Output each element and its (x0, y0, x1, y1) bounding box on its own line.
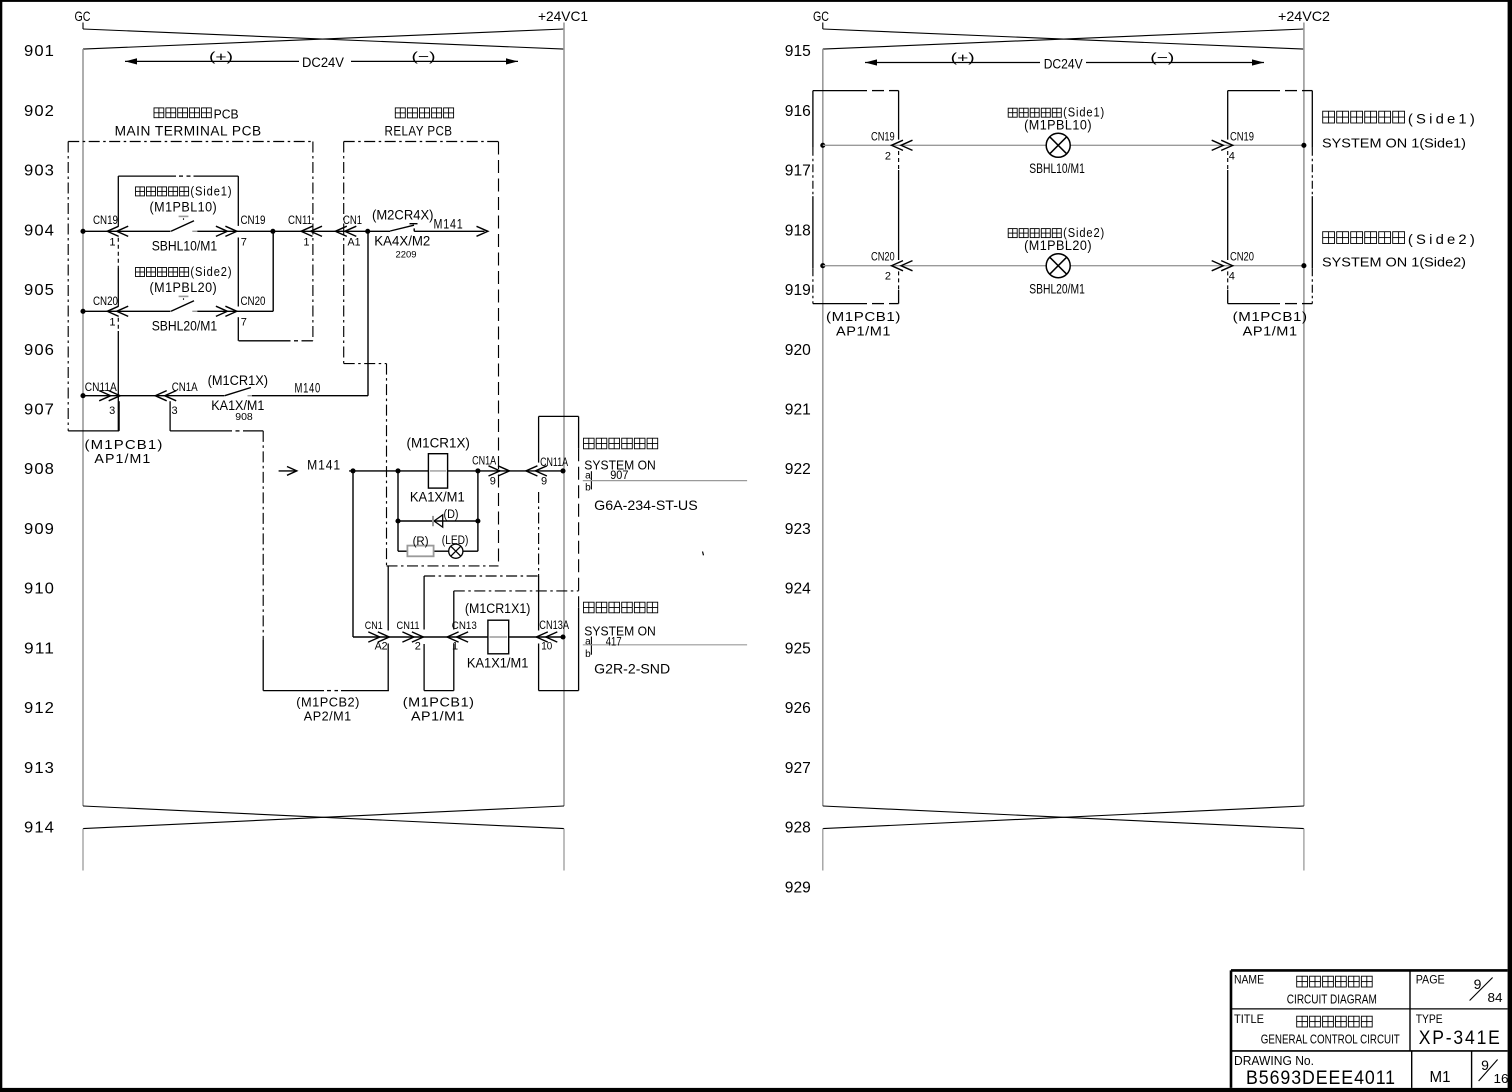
svg-text:AP1/M1: AP1/M1 (1243, 324, 1298, 339)
wire diode row (398, 520, 478, 522)
svg-text:TITLE: TITLE (1234, 1014, 1264, 1026)
indicator lamp SBHL20/M1 (1046, 254, 1070, 278)
svg-text:1: 1 (109, 236, 115, 248)
svg-text:905: 905 (24, 282, 55, 299)
svg-text:84: 84 (1488, 991, 1503, 1005)
connector CN19 pin1 chevron (107, 226, 119, 236)
svg-text:CN20: CN20 (1230, 252, 1254, 264)
connector CN1A pin9 chevron (498, 466, 510, 476)
svg-text:M140: M140 (295, 380, 322, 395)
svg-text:a: a (585, 470, 591, 481)
label 制御電源入り(Side1) (1323, 111, 1335, 123)
svg-text:912: 912 (24, 700, 55, 717)
wire row916 lamp circuit (823, 144, 1046, 146)
enclosure G2R bottom (539, 690, 579, 692)
svg-text:A1: A1 (348, 236, 361, 248)
svg-text:DC24V: DC24V (302, 55, 344, 70)
node junction bus +24VC1 row908 (560, 468, 565, 473)
node bus junction row904 (80, 229, 85, 234)
svg-text:1: 1 (109, 317, 115, 329)
label 制御電源入り row908 (584, 438, 595, 449)
svg-text:(Side1): (Side1) (190, 184, 232, 198)
svg-text:(M1CR1X1): (M1CR1X1) (465, 601, 531, 616)
enclosure G2R right edge (578, 608, 580, 691)
svg-text:+24VC2: +24VC2 (1278, 8, 1330, 24)
wire M140 riser to row904 (367, 231, 369, 395)
switch SBHL10/M1 pushbutton blade (171, 221, 194, 232)
relay contact KA4X/M2 (M2CR4X) (390, 225, 414, 231)
LED indicator (449, 544, 463, 558)
svg-text:M1: M1 (1430, 1069, 1451, 1086)
svg-text:918: 918 (785, 222, 811, 239)
diode D (432, 516, 434, 526)
svg-text:SBHL20/M1: SBHL20/M1 (1029, 282, 1085, 297)
svg-text:CN11: CN11 (397, 620, 420, 632)
board outline M1PCB1 right box right half (1228, 90, 1280, 92)
connector CN20 pin7 chevron (225, 306, 237, 316)
svg-text:G6A-234-ST-US: G6A-234-ST-US (594, 497, 698, 513)
svg-text:SBHL20/M1: SBHL20/M1 (152, 319, 218, 334)
svg-text:M141: M141 (307, 457, 341, 472)
svg-text:(M1PBL20): (M1PBL20) (1024, 238, 1092, 253)
svg-text:M141: M141 (434, 217, 464, 232)
svg-text:914: 914 (24, 820, 55, 837)
svg-text:KA1X1/M1: KA1X1/M1 (467, 655, 529, 670)
svg-text:CN1A: CN1A (472, 454, 496, 468)
connector CN19 pin2 chevron right half (892, 140, 904, 150)
net line a to 417 (583, 644, 747, 646)
svg-text:903: 903 (24, 163, 55, 180)
svg-text:CN11A: CN11A (540, 455, 568, 469)
svg-text:CN20: CN20 (241, 294, 266, 308)
wire bottom stubs left half (82, 829, 84, 871)
svg-text:906: 906 (24, 342, 55, 359)
svg-text:911: 911 (24, 640, 55, 657)
svg-text:929: 929 (785, 879, 811, 896)
svg-text:902: 902 (24, 103, 55, 120)
svg-text:AP2/M1: AP2/M1 (304, 709, 352, 724)
connector CN1A pin3 chevron (155, 391, 167, 401)
wire bottom stubs right half (822, 829, 824, 871)
svg-text:SBHL10/M1: SBHL10/M1 (1029, 161, 1085, 176)
bus GC vertical (left) (82, 49, 84, 806)
svg-text:CN19: CN19 (871, 131, 895, 143)
svg-text:924: 924 (785, 581, 811, 598)
wire row904 switch to CN1 (197, 230, 390, 232)
svg-text:915: 915 (785, 43, 811, 60)
dimension arrow DC24V right half (865, 62, 1040, 64)
switch SBHL20/M1 pushbutton blade (171, 301, 194, 312)
wire resistor-LED row (398, 550, 407, 552)
svg-text:NAME: NAME (1234, 975, 1264, 987)
svg-text:16: 16 (1494, 1072, 1509, 1086)
wire bus crossover bottom-right (823, 806, 1304, 829)
svg-text:908: 908 (24, 461, 55, 478)
svg-text:B5693DEEE4011: B5693DEEE4011 (1246, 1068, 1396, 1089)
svg-text:919: 919 (785, 282, 811, 299)
svg-text:(M1PBL20): (M1PBL20) (150, 280, 218, 295)
svg-text:TYPE: TYPE (1416, 1014, 1443, 1026)
connector CN20 pin2 chevron right half (892, 261, 904, 271)
wire bus crossover top-right (823, 29, 1304, 49)
svg-text:909: 909 (24, 521, 55, 538)
wire drop from row908 to row911 (352, 471, 354, 637)
node junction bus +24VC2 row918 (1301, 263, 1306, 268)
wire M141 entry arrow row908 (279, 470, 296, 472)
svg-text:(M1CR1X): (M1CR1X) (407, 435, 470, 450)
stray tick mark (703, 552, 704, 556)
svg-text:907: 907 (24, 402, 55, 419)
enclosure G2R relay outline top chain (454, 590, 579, 592)
svg-text:2: 2 (885, 150, 891, 162)
node junction bus GC row918 (820, 263, 825, 268)
svg-text:917: 917 (785, 163, 811, 180)
svg-text:3: 3 (171, 405, 177, 417)
svg-text:4: 4 (1229, 150, 1235, 162)
svg-text:CN20: CN20 (93, 294, 118, 308)
svg-text:SYSTEM ON 1(Side1): SYSTEM ON 1(Side1) (1322, 136, 1466, 151)
board boundary stubs under row907 connectors (118, 401, 120, 431)
bus +24VC2 vertical (1303, 23, 1305, 807)
svg-text:PCB: PCB (214, 106, 239, 121)
svg-text:SBHL10/M1: SBHL10/M1 (152, 239, 218, 254)
connector CN19 pin7 chevron (225, 226, 237, 236)
svg-text:CN19: CN19 (93, 213, 118, 227)
node junction row908 drop to row911 (350, 468, 355, 473)
wire jog CN20/7 up to row904 junction (272, 231, 274, 311)
svg-text:907: 907 (610, 468, 628, 482)
svg-text:G2R-2-SND: G2R-2-SND (594, 660, 670, 676)
wire row911 (353, 636, 563, 638)
svg-text:CN19: CN19 (241, 213, 266, 227)
connector CN11A pin3 chevron (109, 391, 121, 401)
svg-text:CN13A: CN13A (539, 618, 569, 632)
board outline M1PCB1 left box right half (813, 90, 867, 92)
label 操作パネル(Side1) (136, 187, 145, 196)
wire row907 (83, 395, 224, 397)
wire GC stub top right (822, 23, 824, 30)
snubber branch verticals (397, 471, 399, 551)
label 操作パネル(Side2) right half (1008, 229, 1017, 238)
label 操作パネル(Side1) right half (1008, 108, 1017, 117)
connector CN20 pin4 chevron right half (1221, 261, 1233, 271)
wire row918 lamp circuit (823, 265, 1046, 267)
svg-text:KA4X/M2: KA4X/M2 (374, 233, 430, 248)
svg-text:CN1: CN1 (343, 213, 362, 227)
svg-text:913: 913 (24, 760, 55, 777)
svg-text:(−): (−) (412, 49, 436, 64)
wire row904 bus to switch (83, 230, 171, 232)
board boundary M1PCB1 lower U (423, 576, 425, 630)
svg-text:DC24V: DC24V (1044, 56, 1083, 71)
connector CN11 pin2 chevron (412, 632, 424, 642)
board outline M1PCB2 left chain edge (262, 431, 264, 640)
svg-text:2: 2 (885, 271, 891, 283)
svg-text:9: 9 (541, 476, 547, 488)
enclosure G6A relay outline (539, 415, 579, 417)
svg-text:CN1: CN1 (365, 620, 383, 632)
svg-text:RELAY PCB: RELAY PCB (385, 124, 453, 139)
svg-text:KA1X/M1: KA1X/M1 (211, 398, 264, 413)
svg-text:3: 3 (109, 405, 115, 417)
board outline RELAY PCB chain box (344, 141, 499, 143)
connector CN20 pin1 chevron (107, 306, 119, 316)
svg-text:(Side2): (Side2) (1408, 231, 1478, 247)
svg-text:PAGE: PAGE (1416, 975, 1445, 987)
svg-text:928: 928 (785, 820, 811, 837)
svg-text:(−): (−) (1150, 50, 1174, 65)
label リレー基板 (RELAY PCB Japanese) (395, 108, 405, 118)
svg-text:CN19: CN19 (1230, 131, 1254, 143)
svg-text:AP1/M1: AP1/M1 (94, 451, 151, 466)
svg-text:417: 417 (606, 634, 622, 648)
wire bus crossover bottom-left (83, 806, 564, 829)
node junction diode row left (395, 518, 400, 523)
svg-text:920: 920 (785, 342, 811, 359)
wire row905 bus to switch (83, 310, 171, 312)
svg-text:2209: 2209 (396, 249, 417, 260)
svg-text:922: 922 (785, 461, 811, 478)
svg-text:(M1PCB1): (M1PCB1) (403, 694, 475, 709)
board outline M1PCB2 right edge (387, 566, 389, 631)
svg-text:+24VC1: +24VC1 (538, 8, 588, 24)
wire M140 (252, 395, 368, 397)
wire GC stub top (82, 23, 84, 30)
connector CN11 pin1 chevron (301, 226, 313, 236)
svg-text:916: 916 (785, 103, 811, 120)
connector CN19 pin4 chevron right half (1221, 140, 1233, 150)
node junction CN19/7 (270, 229, 275, 234)
svg-text:921: 921 (785, 402, 811, 419)
svg-text:(M1PBL10): (M1PBL10) (150, 200, 218, 215)
svg-text:CN11A: CN11A (85, 380, 117, 394)
bus +24VC1 vertical (right) (563, 23, 565, 807)
svg-text:1: 1 (303, 236, 309, 248)
svg-text:XP-341E: XP-341E (1419, 1028, 1502, 1049)
wire row905 switch to jog (197, 310, 273, 312)
title block frame (1231, 969, 1508, 972)
connector CN1 pinA2 chevron (378, 632, 390, 642)
svg-text:1: 1 (452, 641, 458, 653)
dimension arrow DC24V left half (125, 60, 299, 62)
node junction diode row right (475, 518, 480, 523)
svg-text:910: 910 (24, 581, 55, 598)
svg-text:b: b (585, 483, 591, 494)
board outline M1PCB2 bottom edge (263, 690, 324, 692)
svg-text:(M1CR1X): (M1CR1X) (208, 373, 268, 388)
relay contact KA1X/M1 (M1CR1X) (225, 388, 251, 396)
node junction bus GC row916 (820, 143, 825, 148)
net line a to 907 (583, 480, 747, 482)
enclosure operator panel box (118, 175, 176, 177)
node junction snubber left (395, 468, 400, 473)
svg-text:(M1PBL10): (M1PBL10) (1024, 118, 1092, 133)
label メイン中継PCB (MAIN TERMINAL PCB Japanese) (154, 108, 164, 118)
svg-text:KA1X/M1: KA1X/M1 (410, 490, 465, 505)
node junction M140 branch (365, 229, 370, 234)
svg-text:CN11: CN11 (288, 213, 312, 227)
wire row908 main (349, 470, 563, 472)
node bus junction row905 (80, 309, 85, 314)
node junction bus +24VC2 row916 (1301, 143, 1306, 148)
board outline M1PCB1 top chain (424, 575, 538, 577)
svg-text:4: 4 (1229, 271, 1235, 283)
relay coil KA1X/M1 (M1CR1X) (428, 454, 447, 488)
svg-text:AP1/M1: AP1/M1 (411, 709, 465, 724)
svg-text:2: 2 (415, 641, 421, 653)
svg-text:GC: GC (813, 8, 829, 24)
svg-text:CN20: CN20 (871, 252, 895, 264)
svg-text:GENERAL CONTROL CIRCUIT: GENERAL CONTROL CIRCUIT (1261, 1032, 1400, 1047)
svg-text:(M2CR4X): (M2CR4X) (372, 208, 434, 223)
svg-text:DRAWING No.: DRAWING No. (1234, 1054, 1314, 1068)
connector CN1 pinA1 chevron (335, 226, 347, 236)
node junction bus +24VC1 row911 (560, 634, 565, 639)
svg-text:925: 925 (785, 640, 811, 657)
bus GC vertical right half (822, 49, 824, 806)
svg-text:(M1PCB1): (M1PCB1) (85, 437, 164, 452)
svg-text:904: 904 (24, 222, 55, 239)
connector CN13A pin10 chevron (536, 632, 548, 642)
svg-text:(Side2): (Side2) (190, 265, 232, 279)
board outline MAIN TERMINAL PCB chain box (68, 141, 313, 143)
svg-text:908: 908 (235, 412, 253, 423)
svg-text:b: b (585, 649, 591, 660)
svg-text:(LED): (LED) (442, 535, 469, 547)
node bus junction row907 (80, 393, 85, 398)
svg-text:10: 10 (541, 641, 552, 653)
svg-text:923: 923 (785, 521, 811, 538)
svg-text:9: 9 (490, 476, 496, 488)
indicator lamp SBHL10/M1 (1046, 133, 1070, 157)
svg-text:7: 7 (241, 317, 247, 329)
svg-text:CN13: CN13 (452, 620, 477, 632)
node junction snubber right (475, 468, 480, 473)
label 操作パネル(Side2) (136, 268, 145, 277)
svg-text:AP1/M1: AP1/M1 (836, 324, 891, 339)
enclosure G2R left edge (538, 576, 540, 631)
svg-text:SYSTEM ON 1(Side2): SYSTEM ON 1(Side2) (1322, 254, 1466, 269)
svg-text:(M1PCB1): (M1PCB1) (826, 309, 901, 324)
svg-text:(M1PCB1): (M1PCB1) (1233, 309, 1308, 324)
svg-text:(+): (+) (951, 50, 975, 65)
svg-text:a: a (585, 637, 591, 648)
relay coil KA1X1/M1 (M1CR1X1) (488, 620, 509, 654)
svg-text:CN1A: CN1A (172, 380, 198, 394)
svg-text:901: 901 (24, 43, 55, 60)
wire M141 out with arrow (414, 230, 484, 232)
svg-text:CIRCUIT DIAGRAM: CIRCUIT DIAGRAM (1287, 992, 1377, 1007)
resistor R (407, 546, 433, 557)
svg-text:MAIN TERMINAL PCB: MAIN TERMINAL PCB (115, 124, 262, 139)
svg-text:(+): (+) (209, 49, 233, 64)
svg-text:926: 926 (785, 700, 811, 717)
wire bus crossover top-left (GC to +24VC1 swap) (83, 29, 564, 49)
svg-text:7: 7 (241, 236, 247, 248)
svg-text:(M1PCB2): (M1PCB2) (296, 694, 360, 709)
svg-text:927: 927 (785, 760, 811, 777)
svg-text:(D): (D) (444, 509, 459, 521)
label 制御電源入り row911 (584, 602, 595, 613)
svg-text:A2: A2 (375, 641, 388, 653)
connector CN11A pin9 chevron (526, 466, 538, 476)
label 制御電源入り(Side2) (1323, 232, 1335, 244)
svg-text:GC: GC (75, 8, 91, 24)
svg-text:(R): (R) (413, 536, 429, 548)
svg-text:(Side1): (Side1) (1408, 111, 1478, 127)
connector CN13 pin1 chevron (447, 632, 459, 642)
